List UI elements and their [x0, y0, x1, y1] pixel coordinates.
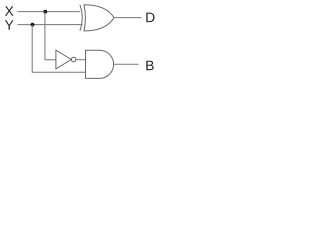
output label D — [146, 13, 154, 22]
inverter U2 triangle — [56, 50, 71, 69]
output label B — [146, 61, 153, 70]
XOR gate U1 body — [84, 5, 114, 31]
node junction on X — [43, 10, 47, 14]
wire XOR output to D — [114, 17, 141, 19]
input label Y — [5, 20, 14, 29]
wire X horizontal — [17, 11, 80, 13]
XOR gate U1 leading arc — [80, 5, 82, 31]
wire inverter output to AND input — [76, 59, 86, 61]
input label X — [5, 6, 14, 15]
wire Y vertical to AND input — [32, 25, 86, 73]
wire X vertical to inverter — [45, 12, 56, 60]
node junction on Y — [31, 23, 35, 27]
wire Y horizontal — [18, 24, 83, 26]
AND gate U3 body — [86, 50, 114, 78]
inverter U2 bubble — [71, 57, 76, 62]
wire AND output to B — [114, 63, 139, 65]
